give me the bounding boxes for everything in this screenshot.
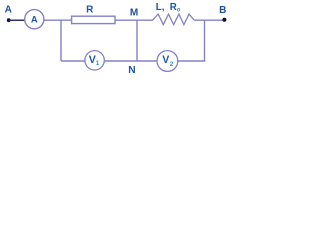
svg-text:A: A xyxy=(31,13,38,24)
svg-text:1: 1 xyxy=(96,60,100,67)
svg-text:M: M xyxy=(130,7,138,18)
resistor R xyxy=(72,16,115,23)
voltmeter V2 xyxy=(157,51,178,72)
svg-text:L, Ro: L, Ro xyxy=(156,2,181,14)
inductor L,Ro zigzag xyxy=(153,14,195,25)
wire inductor to B xyxy=(194,19,224,21)
wire A lead xyxy=(9,19,26,21)
bottom wire left segment xyxy=(61,60,85,62)
voltmeter V1 xyxy=(85,51,104,70)
bottom wire right segment xyxy=(178,60,205,62)
terminal A dot xyxy=(7,18,11,22)
svg-text:2: 2 xyxy=(170,61,174,68)
node M vertical wire xyxy=(136,20,138,61)
svg-text:A: A xyxy=(5,4,12,15)
svg-text:N: N xyxy=(128,65,135,75)
svg-text:V: V xyxy=(162,54,169,66)
left vertical wire xyxy=(60,20,62,61)
svg-text:B: B xyxy=(219,5,226,16)
bottom wire middle segment xyxy=(105,60,157,62)
right vertical wire xyxy=(204,20,206,61)
wire ammeter to resistor xyxy=(44,19,72,21)
svg-text:V: V xyxy=(89,54,96,66)
terminal B dot xyxy=(222,18,226,22)
svg-text:R: R xyxy=(86,4,94,15)
ammeter A xyxy=(25,10,44,29)
wire resistor to inductor xyxy=(115,19,153,21)
